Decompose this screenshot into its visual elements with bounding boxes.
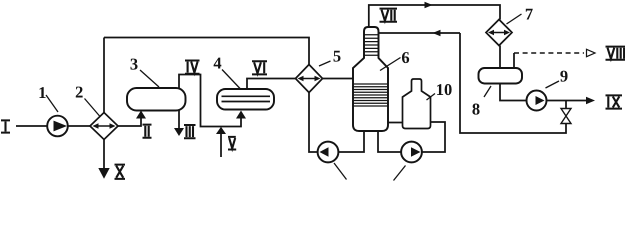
pump P9 [527,91,547,111]
label VII stream [380,9,398,22]
reboiler vessel 10 (bottle) [403,79,431,129]
wire: exchanger 2 down to stream X [103,140,105,171]
wire: exchanger 5 to column feed [323,78,354,80]
arrow reflux into column [433,30,441,36]
label 10 [437,84,452,95]
label 2 [76,87,83,98]
pump P1 [47,116,68,137]
wire: riser exchanger 2 to top rail [103,38,105,113]
arrow into vessel 4 bottom [236,111,246,119]
arrow X outlet [98,168,109,179]
arrow II into vessel 3 [136,111,146,119]
pump bottoms left [318,142,339,163]
heat exchanger E2 [90,113,118,140]
label 10 leader line [427,94,436,101]
label IV stream [185,61,200,74]
column neck packing [364,35,379,55]
arrow III outlet [174,128,184,136]
label 1 leader line [46,95,58,112]
label 2 leader line [85,99,101,117]
wire: column overhead to exchanger 7 [369,5,500,27]
wire: reboiler 10 to column [388,122,403,124]
label 8 leader line [484,86,491,97]
label III stream [184,125,196,138]
label 6 [402,52,409,63]
label VIII stream [606,47,625,60]
wire: vessel 3 top riser and cross-over to vessel 4 [179,75,241,127]
heat exchanger E5 [296,65,323,93]
right pump leader line [394,166,406,181]
heater element in vessel 4 [222,96,271,101]
vessel V4 [217,89,274,110]
arrow V into cross-over line [216,127,226,134]
label 5 leader line [319,61,331,66]
wire: vessel 3 bottoms to stream III [178,111,180,129]
label 9 [560,71,567,82]
column T6 shell [353,27,388,131]
label 3 [130,59,137,70]
label 3 leader line [140,70,159,87]
label 1 [39,87,45,98]
wire: right pump discharge up to reboiler 10 [422,122,445,152]
wire: feed I inlet line [16,125,47,127]
label 6 leader line [380,58,401,71]
wire: exchanger 2 to stream II arrow into vessel 3 [118,119,141,127]
left pump leader line [334,163,347,180]
label 4 leader line [222,70,240,89]
wire: exchanger 7 to drum 8 [499,46,501,69]
label V stream [228,137,236,150]
wire: drum 8 vent stub [513,53,515,68]
wire: drum 8 bottoms to pump 9 [500,84,527,101]
wire: reflux return to column top [379,32,460,34]
vessel V3 [127,88,186,111]
label 8 [472,104,479,115]
label VI stream [252,61,267,74]
wire: top rail to exchanger 5 [104,38,309,65]
arrow dashed VIII (open) [587,49,596,56]
heat exchanger E7 [486,20,512,46]
wire: vessel 4 outlet VI to exchanger 5 [247,79,296,90]
wire: pump1 to exchanger 2 [68,125,91,127]
valve reflux [561,109,571,124]
column body packing [353,84,388,106]
pump circulating right [401,142,422,163]
wire: dashed vent to VIII [514,52,584,54]
label 4 [214,58,222,69]
label X stream [115,165,126,179]
wire: column bottom to right pump [378,131,401,152]
label 5 [334,51,341,62]
drum V8 [479,68,523,84]
label I stream [1,120,10,132]
arrow overhead VII direction [425,2,433,8]
wire: reflux branch down through valve [460,33,566,133]
wire: pump 9 discharge to stream IX [547,100,587,102]
wire: left pump suction from column bottom [338,131,364,152]
label 7 leader line [507,14,522,24]
label 7 [526,9,533,20]
arrow IX outlet [586,97,595,104]
label 9 leader line [546,81,560,88]
wire: stream V inlet [220,134,222,158]
label IX stream [606,95,623,108]
label II stream [143,125,152,138]
wire: exchanger 5 bottom to bottoms pump [309,93,318,153]
